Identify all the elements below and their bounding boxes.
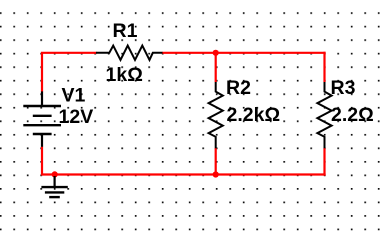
svg-text:R1: R1 <box>113 20 138 42</box>
wire: top-left segment from corner to R1 left lead <box>41 52 97 175</box>
resistor R3 <box>317 82 331 148</box>
value 12V <box>59 106 94 128</box>
svg-text:V1: V1 <box>62 85 86 107</box>
node: junction dot at ground connection <box>52 171 58 177</box>
value 2.2Ω <box>331 104 374 126</box>
wire: top segment from R1 right lead to R3 branch corner <box>162 52 326 54</box>
label R1 <box>113 20 138 42</box>
resistor R2 <box>209 82 223 148</box>
label R2 <box>226 77 251 99</box>
wire: bottom horizontal from battery corner to R3 branch corner <box>41 173 326 175</box>
label R3 <box>331 77 356 99</box>
svg-text:R2: R2 <box>226 77 251 99</box>
value 1kΩ <box>106 64 143 86</box>
label V1 <box>62 85 86 107</box>
svg-text:1kΩ: 1kΩ <box>106 64 143 86</box>
value 2.2kΩ <box>227 104 281 126</box>
svg-text:R3: R3 <box>331 77 356 99</box>
battery V1 <box>23 91 61 146</box>
resistor R1 <box>96 46 163 60</box>
wire: R2 branch vertical (top and bottom red stubs) <box>215 53 217 175</box>
ground <box>41 176 67 197</box>
svg-text:12V: 12V <box>59 106 94 128</box>
node: junction dot at R2 top <box>213 50 219 56</box>
wire: R3 branch vertical (top and bottom red stubs) <box>323 52 325 176</box>
svg-text:2.2Ω: 2.2Ω <box>331 104 374 126</box>
svg-text:2.2kΩ: 2.2kΩ <box>227 104 281 126</box>
node: junction dot at R2 bottom <box>213 171 219 177</box>
